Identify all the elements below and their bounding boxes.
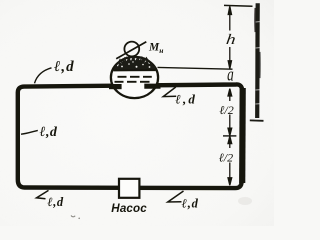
manometer needle diagonal — [116, 42, 146, 59]
svg-text:ℓ,d: ℓ,d — [182, 197, 199, 211]
pipe stub right out of vessel — [144, 84, 160, 89]
svg-text:h: h — [225, 31, 236, 47]
svg-text:Насос: Насос — [111, 202, 147, 215]
scan noise mark — [71, 216, 75, 217]
leader left l,d — [21, 130, 38, 134]
top reference tick for h — [224, 4, 253, 7]
dimension l/2 upper: down arrow segment — [228, 115, 232, 136]
leader top-left l,d — [35, 68, 52, 84]
mid reference tick — [223, 135, 236, 137]
svg-text:ℓ,d: ℓ,d — [47, 195, 63, 209]
dimension h line lower segment with down arrow — [228, 47, 231, 69]
leader angle top-right l,d — [163, 87, 176, 97]
svg-text:ℓ,d: ℓ,d — [54, 59, 75, 75]
svg-text:ℓ,d: ℓ,d — [175, 92, 197, 107]
dimension h line upper segment with up arrow — [228, 6, 231, 30]
liquid surface line in vessel — [114, 69, 156, 71]
scan edge line foot — [250, 119, 264, 121]
scan edge bold vertical line — [255, 3, 260, 118]
right pipe thickening — [239, 88, 246, 183]
pipe stub left into vessel — [109, 84, 122, 89]
liquid dashes row 1 — [118, 76, 152, 78]
pipe loop (l,d segments) — [18, 84, 242, 188]
free-surface level line to dimension — [158, 67, 233, 69]
pump box — [119, 179, 139, 198]
vessel (spherical tank) — [111, 57, 158, 98]
dimension l/2 lower: up arrow segment — [228, 136, 232, 148]
liquid dashes row 2 — [115, 81, 150, 83]
svg-text:a: a — [227, 65, 234, 85]
dimension l/2 upper: up arrow segment — [228, 89, 232, 101]
svg-text:ℓ/2: ℓ/2 — [219, 150, 233, 164]
leader angle bottom-left l,d — [37, 190, 49, 198]
svg-text:ℓ,d: ℓ,d — [40, 125, 58, 140]
vapour scribble hatching in vessel — [114, 57, 156, 70]
manometer Мн circle — [124, 42, 139, 57]
svg-text:ℓ/2: ℓ/2 — [219, 103, 233, 117]
leader angle bottom-right l,d — [168, 191, 184, 202]
dimension l/2 lower: down arrow segment — [228, 163, 232, 186]
